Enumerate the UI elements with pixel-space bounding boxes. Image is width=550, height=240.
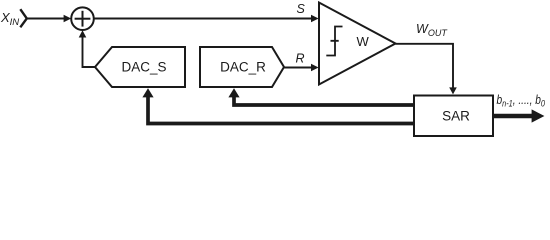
wire X_IN to summing junction xyxy=(27,15,71,23)
svg-text:DAC_R: DAC_R xyxy=(220,60,266,75)
wire DAC_S output to summer xyxy=(79,30,95,67)
DAC_R D/A converter xyxy=(200,47,284,87)
bus SAR to DAC_R xyxy=(228,88,414,105)
DAC_S D/A converter xyxy=(95,47,185,87)
wire W_OUT: comparator output to SAR xyxy=(396,44,457,95)
SAR register block xyxy=(414,96,493,137)
svg-text:DAC_S: DAC_S xyxy=(121,60,166,75)
comparator U1 (latched comparator triangle) xyxy=(319,3,396,85)
svg-text:SAR: SAR xyxy=(442,109,470,124)
bus SAR output b_n-1 ... b_0 xyxy=(493,109,544,122)
svg-text:R: R xyxy=(296,52,305,66)
svg-text:S: S xyxy=(297,2,306,16)
svg-text:W: W xyxy=(357,34,370,49)
bus SAR to DAC_S xyxy=(142,88,414,123)
wire R: DAC_R output to comparator R input xyxy=(284,64,319,72)
hysteresis symbol inside comparator xyxy=(326,27,342,56)
input pin chevron xyxy=(20,9,27,27)
wire S: summer to comparator S input xyxy=(94,15,319,23)
summing junction adder xyxy=(71,7,94,30)
